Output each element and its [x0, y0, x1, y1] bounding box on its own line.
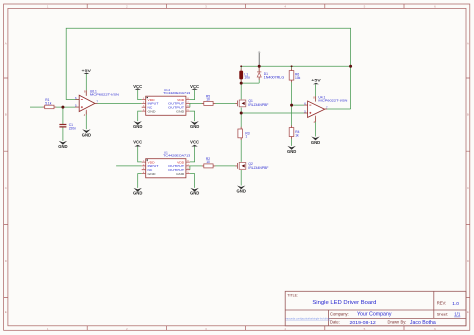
junction at feedback corner: [349, 65, 352, 68]
svg-text:Sheet:: Sheet:: [437, 311, 449, 316]
junction Q1 source sense node: [240, 112, 243, 115]
svg-text:GND: GND: [190, 124, 199, 129]
wire U1 GND right: [190, 174, 195, 188]
wire VCC to U1.2 VDD left: [138, 90, 142, 100]
wire node to C1: [62, 107, 64, 124]
svg-text:1/1: 1/1: [454, 312, 461, 317]
svg-text:5.1k: 5.1k: [45, 102, 52, 106]
svg-text:VCC: VCC: [190, 84, 199, 89]
svg-text:E: E: [467, 310, 469, 314]
transistor Q2: [237, 162, 268, 170]
wire U1.2 outputs join: [189, 103, 191, 107]
wire sense node to U4.1 pin5: [241, 112, 307, 114]
ground under U4.1: [311, 137, 320, 146]
ground under C1: [58, 141, 67, 149]
wire feedback net: [66, 28, 350, 99]
+5V supply U6.1: [82, 68, 92, 74]
wire R6 top: [291, 66, 293, 70]
svg-text:IRLZ44NPBF: IRLZ44NPBF: [248, 103, 268, 107]
wire U1.2 GND left: [138, 111, 142, 121]
svg-text:1: 1: [245, 135, 247, 139]
title block: [285, 291, 466, 326]
wire node to Q1 drain: [240, 83, 242, 99]
svg-text:10: 10: [206, 97, 210, 101]
resistor R5: [204, 94, 213, 105]
wire U1.2 GND right: [190, 111, 195, 121]
svg-text:MCP6022T-I/SN: MCP6022T-I/SN: [318, 98, 347, 102]
+5V supply U4.1: [311, 78, 321, 85]
svg-text:1k: 1k: [295, 133, 299, 137]
VCC U1.2 left: [133, 84, 142, 90]
svg-text:GND: GND: [287, 149, 296, 154]
svg-text:GND: GND: [311, 140, 320, 145]
op-amp U6.1: [75, 89, 119, 117]
resistor R4: [289, 128, 299, 138]
svg-text:VCC: VCC: [190, 140, 199, 145]
svg-text:IRLZ44NPBF: IRLZ44NPBF: [248, 166, 268, 170]
junction at R6 top: [291, 65, 293, 67]
wire +5V to U6.1 pin8: [85, 74, 87, 95]
wire input right to op-amp pin5: [54, 106, 79, 108]
svg-text:A: A: [467, 41, 469, 45]
junction at L1 top corner: [240, 65, 242, 67]
svg-text:+5V: +5V: [311, 78, 321, 83]
svg-text:Company:: Company:: [330, 311, 349, 316]
ground U1.2 left: [133, 121, 142, 129]
wire D1 bottom: [258, 77, 260, 83]
svg-text:1.0: 1.0: [452, 301, 459, 307]
diode D1: [257, 72, 285, 80]
svg-text:A: A: [5, 41, 7, 45]
svg-text:TITLE:: TITLE:: [287, 294, 298, 298]
svg-text:Single LED Driver Board: Single LED Driver Board: [312, 300, 376, 306]
svg-text:GND: GND: [58, 144, 67, 149]
ground under U6.1: [82, 129, 91, 137]
ground U1 right: [190, 188, 199, 196]
junction input node: [61, 106, 64, 109]
resistor R1: [45, 98, 54, 109]
wire VCC to U1 VDD left: [138, 147, 142, 162]
svg-text:1N4007RLG: 1N4007RLG: [264, 75, 285, 79]
svg-text:Jaco Botha: Jaco Botha: [410, 320, 436, 326]
wire L1 top: [240, 66, 242, 70]
junction LED node at D1: [258, 65, 261, 68]
svg-text:GND: GND: [133, 191, 142, 196]
wire R5 to Q1 gate: [213, 102, 237, 104]
pin stubs (red component leads): [43, 68, 328, 166]
svg-text:GND: GND: [176, 109, 185, 113]
svg-text:GND: GND: [190, 191, 199, 196]
wire U6.1 out to U1.2 input: [95, 102, 142, 104]
wire U1.2 output to R5: [190, 102, 204, 104]
wire R3 to Q2 drain: [240, 138, 242, 162]
svg-text:GND: GND: [82, 132, 91, 137]
wire U1 GND left: [138, 174, 142, 188]
junction L1-D1 bottom: [240, 82, 243, 85]
wire U1 input stub: [116, 165, 142, 167]
wire R2 to Q2 gate: [213, 165, 237, 167]
svg-text:E: E: [5, 310, 7, 314]
svg-text:Drawn By:: Drawn By:: [388, 319, 407, 324]
resistor R3: [238, 129, 250, 139]
ground under R4: [287, 146, 296, 154]
wire VCC to U1 VDD right: [190, 147, 195, 162]
wire U4.1 pin4 to GND: [315, 117, 317, 136]
wire U1 output to R2: [190, 165, 204, 167]
junction dots: [61, 65, 352, 115]
wire R4 to GND: [291, 137, 293, 146]
gate driver U1.2: [142, 88, 191, 115]
svg-text:VCC: VCC: [133, 140, 142, 145]
wire top node horizontal: [241, 65, 350, 67]
wire C1 to GND: [62, 127, 64, 141]
svg-text:TC4420EOA713: TC4420EOA713: [163, 154, 190, 158]
wire R6 bottom to node: [291, 80, 293, 105]
svg-text:TC4420EOA713: TC4420EOA713: [163, 91, 190, 95]
svg-text:2019-08-12: 2019-08-12: [350, 320, 377, 326]
wire VCC to U1.2 VDD right: [190, 90, 195, 100]
svg-text:REV:: REV:: [437, 300, 447, 305]
svg-text:+5V: +5V: [82, 68, 92, 73]
ground U1 left: [133, 188, 142, 196]
net port LED output: [258, 51, 261, 66]
wire node to R3: [240, 113, 242, 129]
svg-text:VCC: VCC: [133, 84, 142, 89]
svg-text:220n: 220n: [69, 127, 77, 131]
ground under Q2: [237, 186, 246, 194]
VCC U1.2 right: [190, 84, 199, 90]
svg-text:GND: GND: [133, 124, 142, 129]
junction R6-R4 node: [290, 104, 293, 107]
op-amp U4.1: [304, 95, 347, 124]
wire node to R4: [291, 105, 293, 127]
VCC U1 right: [190, 140, 199, 147]
inductor L1: [239, 71, 250, 80]
svg-text:Your Company: Your Company: [357, 312, 392, 318]
wire L1 bottom: [240, 80, 242, 84]
ground U1.2 right: [190, 121, 199, 129]
gate driver U1: [142, 151, 191, 178]
wire Q2 source to GND: [240, 170, 242, 186]
transistor Q1: [237, 99, 268, 107]
capacitor C1: [59, 123, 76, 130]
svg-text:GND: GND: [148, 109, 157, 113]
svg-text:GND: GND: [176, 172, 185, 176]
wire Q1 source: [240, 108, 242, 114]
svg-text:MCP6022T-I/SN: MCP6022T-I/SN: [90, 92, 119, 96]
svg-text:Date:: Date:: [330, 319, 340, 324]
wire L1-D1 bottom link: [241, 82, 259, 84]
svg-text:10k: 10k: [295, 76, 301, 80]
wire node to U4.1 output: [350, 66, 352, 109]
svg-text:GND: GND: [148, 172, 157, 176]
svg-text:easyeda.com/jacobotha/single-l: easyeda.com/jacobotha/single-led-driver: [286, 317, 331, 320]
resistor R2: [204, 157, 213, 168]
wire node to U4.1 pin6: [292, 104, 308, 106]
svg-text:10u: 10u: [244, 76, 250, 80]
VCC U1 left: [133, 140, 142, 147]
resistor R6: [289, 71, 300, 81]
wire input left: [30, 106, 45, 108]
wire U1 outputs join: [189, 166, 191, 170]
svg-text:B: B: [467, 113, 469, 117]
svg-text:B: B: [5, 113, 7, 117]
svg-text:GND: GND: [237, 189, 246, 194]
svg-text:10: 10: [206, 160, 210, 164]
wire U4.1 output: [325, 108, 351, 110]
wire +5V to U4.1 pin8: [315, 84, 317, 101]
wire U6.1 pin4 to GND: [85, 111, 87, 129]
wire D1 top: [258, 66, 260, 71]
